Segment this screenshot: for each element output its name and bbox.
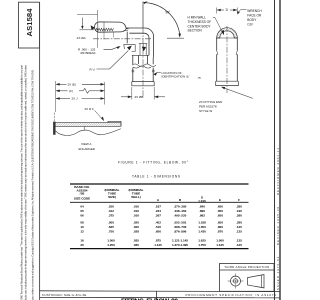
svg-text:.370-.395: .370-.395 — [174, 204, 187, 208]
svg-text:.028: .028 — [133, 230, 139, 234]
svg-text:1.350: 1.350 — [198, 225, 206, 229]
svg-text:/7/: /7/ — [198, 76, 202, 80]
svg-text:04: 04 — [80, 204, 84, 208]
chamfer right — [236, 51, 237, 55]
right border thin line — [274, 0, 276, 300]
dome base line — [216, 37, 238, 39]
svg-text:±.010: ±.010 — [198, 199, 206, 203]
svg-text:PER AS1578: PER AS1578 — [199, 105, 217, 109]
AS1584 title box — [19, 2, 40, 48]
svg-text:.190: .190 — [236, 209, 242, 213]
svg-text:/10/: /10/ — [247, 23, 252, 27]
arm right edge upper — [152, 57, 154, 64]
arrow on stub — [142, 47, 146, 52]
dim 2X dia B arrows — [121, 96, 165, 98]
arc arrowhead top — [143, 1, 147, 4]
svg-text:your written comments and sugg: your written comments and suggestions. C… — [30, 70, 34, 300]
svg-text:H MIN WALL: H MIN WALL — [188, 16, 207, 20]
wall leader arrow — [221, 30, 224, 35]
svg-text:E: E — [219, 198, 221, 202]
svg-text:ØF BREAK: ØF BREAK — [81, 51, 96, 55]
svg-text:VIEW A: VIEW A — [81, 142, 91, 146]
svg-text:ISSUED 1976-02 REVISED 19: ISSUED 1976-02 REVISED 1995-30 REAFFIRME… — [276, 148, 280, 292]
svg-text:.688-.706: .688-.706 — [174, 225, 187, 229]
svg-text:1.000: 1.000 — [107, 239, 115, 243]
footer divider — [156, 291, 158, 300]
svg-text:2X (E): 2X (E) — [68, 83, 77, 87]
table bottom rule — [70, 248, 249, 250]
svg-text:1.370-1.395: 1.370-1.395 — [172, 243, 188, 247]
svg-text:.125: .125 — [236, 239, 242, 243]
svg-text:.650: .650 — [217, 221, 223, 225]
dim 2X dia B extension right — [153, 87, 155, 100]
tube end flare — [132, 82, 154, 86]
svg-text:1.125: 1.125 — [154, 243, 162, 247]
right border thick line — [279, 0, 281, 300]
svg-text:.650: .650 — [217, 209, 223, 213]
break leader arrow — [116, 46, 120, 49]
nut interface lines to body — [124, 29, 129, 31]
svg-text:.125: .125 — [236, 225, 242, 229]
svg-text:WALL): WALL) — [131, 195, 141, 199]
svg-text:2X FITTING END: 2X FITTING END — [199, 100, 223, 104]
svg-text:.800: .800 — [217, 225, 223, 229]
svg-text:SIZE): SIZE) — [108, 195, 116, 199]
svg-text:.280: .280 — [236, 204, 242, 208]
svg-text:.312: .312 — [108, 209, 114, 213]
svg-text:.280: .280 — [236, 213, 242, 217]
svg-text:2X R F: 2X R F — [85, 107, 95, 111]
svg-text:STYLE W: STYLE W — [199, 109, 212, 113]
leader from break label — [104, 47, 120, 50]
frustum face line — [260, 275, 262, 287]
svg-text:FACE OR: FACE OR — [247, 13, 262, 17]
dim 2X dia B extension left — [131, 87, 133, 100]
projection symbol circle — [231, 276, 241, 286]
svg-text:.035: .035 — [133, 239, 139, 243]
band hatched — [55, 123, 121, 127]
svg-text:.187: .187 — [155, 204, 161, 208]
2X R F leader — [95, 110, 103, 120]
table header rule — [70, 201, 249, 203]
table data — [80, 204, 242, 247]
wavy break on arm 2 — [133, 66, 151, 68]
dim extension line right — [104, 82, 106, 105]
third angle projection box — [220, 264, 275, 292]
frustum — [248, 275, 265, 288]
svg-text:.016: .016 — [133, 213, 139, 217]
arm left edge upper — [132, 55, 134, 64]
svg-text:.500: .500 — [108, 221, 114, 225]
svg-text:(C): (C) — [69, 89, 73, 93]
crosshair — [228, 280, 244, 282]
footer bottom line — [40, 296, 280, 298]
band step right — [108, 121, 121, 126]
end flare — [216, 81, 239, 85]
nut sausage outline — [94, 22, 126, 32]
arm inner bore right — [146, 55, 148, 64]
chamfer left — [217, 51, 218, 55]
lower tube left edge — [132, 68, 134, 82]
svg-text:.280: .280 — [236, 221, 242, 225]
identification arrow — [153, 72, 157, 75]
svg-text:THIRD ANGLE PROJECTION: THIRD ANGLE PROJECTION — [224, 265, 269, 269]
break vertical jog — [83, 127, 85, 131]
R U leader — [97, 51, 129, 69]
lower tube right — [236, 54, 238, 81]
svg-text:.250: .250 — [108, 204, 114, 208]
dashed centerline above cap — [53, 113, 55, 122]
tube bead left — [132, 70, 135, 72]
arrowhead dark fills of flange callouts — [127, 46, 146, 52]
svg-text:/1B: /1B — [80, 192, 85, 196]
dim D line — [217, 9, 238, 11]
svg-text:1.125: 1.125 — [216, 243, 224, 247]
svg-text:90°: 90° — [166, 11, 172, 15]
fitting end arrow — [221, 87, 225, 90]
svg-text:IDENTIFICATION /1/: IDENTIFICATION /1/ — [162, 75, 190, 79]
svg-text:06: 06 — [80, 213, 84, 217]
small dim bottom line — [80, 29, 95, 31]
small dim down arrow — [81, 18, 83, 29]
hex line 2 in nut — [103, 22, 105, 32]
svg-text:10: 10 — [80, 225, 84, 229]
arc target line — [167, 37, 184, 39]
nut left serration arrow — [91, 25, 95, 30]
svg-text:BODY: BODY — [247, 18, 257, 22]
svg-text:1.750: 1.750 — [198, 243, 206, 247]
svg-text:2X ØB: 2X ØB — [135, 95, 144, 99]
svg-text:TABLE 1 - DIMENSIONS: TABLE 1 - DIMENSIONS — [132, 175, 180, 179]
tube right edge — [236, 38, 238, 51]
footer top line — [40, 290, 280, 293]
svg-text:16: 16 — [80, 239, 84, 243]
wavy break below band — [56, 129, 121, 136]
header separator — [220, 269, 275, 271]
svg-text:FIGURE 1 - FITTING, ELBOW, 90°: FIGURE 1 - FITTING, ELBOW, 90° — [118, 161, 189, 165]
arm inner bore left — [138, 55, 140, 64]
flange cup detail — [124, 45, 135, 52]
dim D extension right — [236, 8, 238, 14]
wall leader diagonal — [213, 17, 223, 33]
stub cap line — [139, 42, 147, 44]
arc arrowhead bottom — [178, 34, 181, 38]
extension line above nut — [97, 10, 99, 22]
dim D extension left — [216, 8, 218, 14]
extension line below nut — [97, 32, 99, 48]
svg-text:.516: .516 — [155, 225, 161, 229]
dim row 2X J — [56, 98, 105, 100]
svg-text:.650: .650 — [217, 204, 223, 208]
svg-text:.495-.520: .495-.520 — [174, 213, 187, 217]
svg-text:2X J: 2X J — [72, 97, 79, 101]
identification leader — [155, 72, 161, 73]
svg-text:F: F — [238, 198, 240, 202]
body outer outline — [127, 28, 154, 57]
lower tube right edge — [152, 68, 154, 82]
svg-text:08: 08 — [80, 221, 84, 225]
svg-text:.840: .840 — [199, 204, 205, 208]
svg-text:THICKNESS OF: THICKNESS OF — [188, 20, 212, 24]
svg-text:.876-.896: .876-.896 — [174, 230, 187, 234]
left border line — [39, 2, 41, 300]
svg-text:.402: .402 — [155, 221, 161, 225]
svg-text:1.121-1.145: 1.121-1.145 — [172, 239, 188, 243]
body left edge below nut — [126, 32, 128, 44]
centerline horizontal — [93, 2, 153, 97]
svg-text:.016: .016 — [133, 204, 139, 208]
svg-text:icular use, including any pate: icular use, including any patent infring… — [24, 64, 28, 300]
wrench face leader — [238, 10, 246, 13]
svg-text:1.625: 1.625 — [198, 239, 206, 243]
svg-text:.234: .234 — [155, 209, 161, 213]
body bottom shoulder — [132, 54, 149, 56]
table top rule — [70, 183, 249, 185]
svg-text:.656: .656 — [155, 230, 161, 234]
svg-text:WRENCH: WRENCH — [247, 9, 262, 13]
svg-text:.125: .125 — [236, 243, 242, 247]
table header texts — [74, 185, 240, 203]
svg-text:.125: .125 — [236, 230, 242, 234]
svg-text:.875: .875 — [155, 239, 161, 243]
dome arch hatched — [217, 28, 238, 38]
fitting end leader — [223, 88, 253, 99]
svg-text:12: 12 — [80, 230, 84, 234]
svg-text:1.430: 1.430 — [198, 230, 206, 234]
svg-text:.020: .020 — [133, 225, 139, 229]
small dim at nut left: top line — [77, 13, 98, 15]
svg-text:2X ØA: 2X ØA — [77, 36, 87, 40]
body inner outline — [129, 33, 149, 55]
svg-text:1.000: 1.000 — [216, 239, 224, 243]
svg-text:.870: .870 — [217, 230, 223, 234]
svg-text:PROCUREMENT SPECIFICATION: IS: PROCUREMENT SPECIFICATION: IS AS1075 — [186, 293, 277, 297]
svg-text:.982: .982 — [199, 213, 205, 217]
90 deg arc — [145, 3, 180, 36]
svg-text:.020: .020 — [133, 221, 139, 225]
hex marks below nut — [104, 32, 114, 39]
side centerline — [226, 26, 228, 93]
hex line in nut — [97, 22, 99, 32]
svg-text:.750: .750 — [108, 230, 114, 234]
dim row 2X (E) — [56, 83, 105, 85]
svg-text:20: 20 — [80, 243, 84, 247]
svg-text:1.188: 1.188 — [198, 221, 206, 225]
svg-text:.375: .375 — [108, 213, 114, 217]
svg-text:.552-.591: .552-.591 — [174, 221, 187, 225]
left end cap — [53, 122, 55, 135]
svg-text:AS1584: AS1584 — [25, 8, 34, 37]
svg-text:.625: .625 — [108, 225, 114, 229]
svg-text:ENLARGED: ENLARGED — [79, 147, 96, 151]
svg-text:.650: .650 — [217, 213, 223, 217]
svg-text:R U: R U — [90, 67, 95, 71]
arrow in cup — [127, 46, 132, 51]
svg-text:05: 05 — [80, 209, 84, 213]
lower tube left — [216, 54, 218, 81]
tube bead right — [152, 70, 155, 72]
dim extension line left — [55, 81, 57, 112]
svg-text:SIZE CODE: SIZE CODE — [74, 196, 90, 200]
dim row (C) — [56, 88, 105, 93]
stub verticals — [140, 44, 146, 56]
svg-text:.016: .016 — [133, 209, 139, 213]
svg-text:SECTION: SECTION — [188, 29, 203, 33]
svg-text:.890: .890 — [199, 209, 205, 213]
centerline vertical — [142, 28, 144, 97]
svg-text:.035: .035 — [133, 243, 139, 247]
svg-text:.297: .297 — [155, 213, 161, 217]
svg-text:.438-.463: .438-.463 — [174, 209, 187, 213]
nut serration ticks — [96, 28, 114, 30]
tube left edge — [216, 38, 218, 51]
wavy break on arm — [132, 64, 156, 67]
svg-text:CUSTODIAN: SAE G-3/G-3E: CUSTODIAN: SAE G-3/G-3E — [42, 293, 87, 297]
svg-text:1.250: 1.250 — [107, 243, 115, 247]
